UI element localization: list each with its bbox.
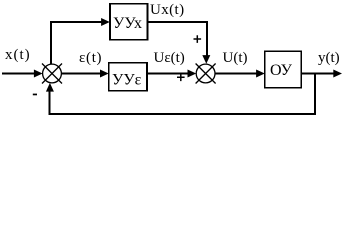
block U2 UUe (109, 63, 147, 91)
summing junction S1 (42, 64, 62, 84)
wire UUx output to summer S2 (148, 22, 207, 56)
svg-text:ОУ: ОУ (270, 62, 293, 79)
plus sign at S2 left input (177, 73, 185, 81)
svg-text:УУε: УУε (112, 72, 142, 89)
svg-text:U(t): U(t) (223, 50, 248, 66)
svg-text:УУх: УУх (113, 15, 142, 32)
wire input x(t) to summer S1 (2, 73, 35, 75)
wire OU output to y(t) (301, 73, 334, 75)
svg-text:x(t): x(t) (5, 47, 31, 63)
plus sign at S2 top input (194, 35, 202, 43)
wire S1 to UUe (61, 73, 100, 75)
wire S2 to OU (215, 73, 257, 75)
minus sign at S1 feedback input (33, 94, 37, 96)
feedback wire from output branch to S1 (50, 74, 315, 114)
svg-text:ε(t): ε(t) (79, 50, 102, 66)
wire UUe output to summer S2 (147, 73, 188, 75)
wire S1 branch up to UUx (51, 22, 102, 65)
svg-text:y(t): y(t) (318, 50, 340, 66)
svg-text:Ux(t): Ux(t) (150, 2, 185, 18)
svg-text:Uε(t): Uε(t) (154, 50, 185, 66)
summing junction S2 (196, 64, 216, 84)
block U3 OU (265, 51, 302, 87)
block U1 UUx (110, 4, 148, 40)
